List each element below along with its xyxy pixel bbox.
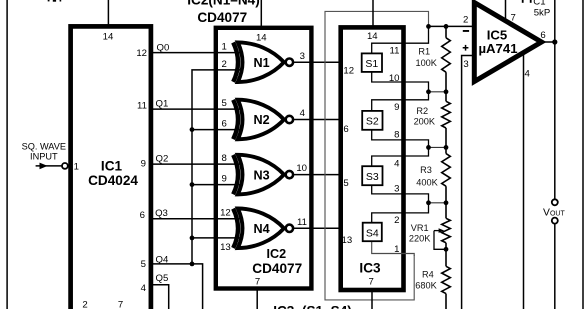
svg-text:14: 14 [367, 31, 378, 42]
svg-text:2: 2 [82, 299, 87, 309]
wire N4 pin 13 [192, 237, 240, 239]
svg-text:IC3: IC3 [359, 261, 381, 276]
junction dot summing/pin2 [426, 24, 431, 29]
svg-text:2: 2 [463, 15, 468, 26]
svg-text:14: 14 [256, 32, 267, 43]
svg-text:IC2: IC2 [266, 247, 286, 261]
svg-text:R2: R2 [416, 106, 428, 116]
svg-text:400K: 400K [416, 177, 438, 187]
svg-text:3: 3 [463, 59, 468, 70]
op-amp IC5 uA741 [474, 3, 541, 82]
svg-text:4: 4 [394, 159, 400, 170]
svg-text:CD4024: CD4024 [88, 173, 138, 188]
junction dot pin13/feedback [190, 236, 195, 241]
svg-text:N1: N1 [254, 56, 270, 70]
svg-text:R1: R1 [418, 47, 430, 57]
svg-text:8: 8 [394, 129, 399, 140]
wire Q2 to N3 pin 8 [151, 163, 240, 165]
gray routing box around IC3 [325, 11, 429, 300]
junction dot R1 top [444, 24, 449, 29]
wire Q0 to N1 pin 1 [151, 52, 240, 54]
wire: feedback from C1 down to output [554, 0, 556, 42]
wire N4 output to S4 [294, 227, 363, 229]
svg-text:12: 12 [220, 208, 231, 219]
svg-text:Q1: Q1 [156, 99, 169, 110]
svg-text:10: 10 [296, 163, 307, 174]
wire: op-amp pin 7 supply [505, 0, 507, 21]
svg-text:R4: R4 [422, 269, 434, 279]
switch S4 [363, 203, 429, 256]
wire N1 output to S1 [294, 61, 362, 63]
svg-text:7: 7 [369, 277, 374, 288]
svg-text:INPUT: INPUT [30, 152, 58, 162]
XNOR gate N1 [233, 42, 293, 82]
link tap R2/R3 [429, 146, 447, 148]
svg-text:5: 5 [343, 178, 348, 189]
svg-text:CD4077: CD4077 [197, 10, 247, 25]
svg-text:C1: C1 [533, 0, 545, 7]
svg-text:7: 7 [255, 277, 260, 288]
svg-text:12: 12 [343, 66, 354, 77]
svg-text:5: 5 [141, 259, 146, 270]
wire: op-amp pin 3 reference [462, 56, 473, 309]
svg-text:1: 1 [222, 42, 227, 53]
wire: IC1 pin 14 supply [107, 0, 109, 26]
wire: IC2 pin 14 supply [260, 0, 262, 27]
IC3 box [341, 27, 404, 290]
svg-text:4: 4 [300, 108, 306, 119]
svg-text:CD4077: CD4077 [252, 261, 302, 276]
wire N3 output to S3 [294, 174, 363, 176]
wire: input with arrowhead [36, 165, 62, 167]
svg-text:1: 1 [394, 244, 399, 255]
XNOR gate N4 [233, 209, 293, 249]
resistor R3 [442, 147, 451, 202]
svg-text:7: 7 [511, 12, 516, 23]
wire Q5 [151, 285, 169, 309]
IC1 box CD4024 [71, 26, 151, 309]
VOUT terminal top [552, 199, 558, 205]
wire Q4 [151, 264, 203, 309]
svg-text:N2: N2 [254, 113, 270, 127]
svg-text:IC3–(S1–S4): IC3–(S1–S4) [273, 304, 352, 309]
switch S1 [362, 26, 429, 91]
switch S3 [362, 147, 428, 202]
svg-text:14: 14 [103, 31, 114, 42]
svg-text:VR1: VR1 [411, 223, 429, 233]
VOUT terminal bottom [552, 218, 558, 224]
svg-text:Q0: Q0 [157, 42, 170, 53]
link tap R1/R2 [429, 91, 447, 93]
svg-text:9: 9 [394, 102, 399, 113]
svg-text:IC1: IC1 [101, 158, 123, 173]
svg-text:11: 11 [297, 217, 307, 228]
svg-text:Q3: Q3 [155, 208, 168, 219]
svg-text:680K: 680K [415, 280, 437, 290]
input terminal circle at IC1 pin 1 [62, 163, 68, 169]
svg-text:R3: R3 [420, 165, 432, 175]
wire: op-amp output [542, 41, 555, 43]
wire N2 output to S2 [294, 119, 363, 121]
svg-text:Q5: Q5 [156, 273, 169, 284]
svg-text:100K: 100K [415, 58, 437, 68]
wire: IC3 pin 14 supply [372, 0, 374, 27]
svg-text:7: 7 [118, 299, 123, 309]
svg-text:5kP: 5kP [534, 8, 551, 19]
wire: left vertical bus (cropped larger frame) [6, 0, 8, 309]
wire N3 pin 9 [192, 184, 240, 186]
wire: op-amp pin 4 supply [523, 52, 525, 309]
plus sign [463, 45, 469, 51]
resistor R4 [442, 249, 451, 309]
resistor R2 [442, 92, 451, 148]
wire N2 pin 6 [192, 129, 240, 131]
junction dot pin9/feedback [190, 182, 195, 187]
junction dot pin6/feedback [190, 127, 195, 132]
svg-text:4: 4 [141, 283, 147, 294]
svg-text:S4: S4 [366, 227, 379, 239]
XNOR gate N3 [233, 155, 293, 195]
svg-text:13: 13 [342, 235, 353, 246]
svg-text:220K: 220K [409, 234, 431, 244]
wire: VOUT bottom down [554, 224, 556, 309]
wire: summing node to op-amp pin 2 [429, 25, 473, 27]
svg-text:200K: 200K [414, 116, 436, 126]
capacitor C1 plates (cropped at top) [522, 0, 532, 3]
svg-text:6: 6 [140, 210, 145, 221]
svg-text:13: 13 [220, 242, 231, 253]
minus sign [463, 30, 469, 32]
svg-text:Q2: Q2 [156, 154, 169, 165]
svg-text:11: 11 [137, 101, 147, 112]
svg-text:8: 8 [222, 153, 227, 164]
svg-text:9: 9 [141, 159, 146, 170]
svg-text:S1: S1 [365, 58, 378, 70]
svg-text:2: 2 [394, 215, 399, 226]
resistor R1 [442, 26, 451, 91]
svg-text:S3: S3 [366, 171, 379, 183]
svg-text:µA741: µA741 [478, 41, 517, 56]
junction dot Q4/feedback [190, 262, 195, 267]
svg-text:N3: N3 [254, 168, 270, 182]
wire: output down to VOUT [554, 42, 556, 199]
XNOR gate N2 [233, 100, 293, 140]
potentiometer VR1 [434, 203, 450, 250]
svg-text:9: 9 [222, 174, 227, 185]
wire: right vertical bus [582, 0, 584, 309]
svg-text:IC2(N1–N4): IC2(N1–N4) [187, 0, 260, 8]
svg-text:S2: S2 [366, 116, 379, 128]
svg-text:1: 1 [74, 161, 79, 172]
wire Q3 to N4 pin 12 [151, 218, 240, 220]
wire Q1 to N2 pin 5 [151, 108, 240, 110]
wire N1 pin 2 feedback [192, 70, 240, 264]
wire: IC3 pin 7 down [371, 292, 373, 309]
partial text: cropped label bottoms top-left (+9V) [48, 0, 61, 2]
link tap R3/VR1 [429, 202, 447, 204]
VR1 wiper arrowhead [439, 228, 445, 233]
wire: IC2 pin 7 down [256, 289, 258, 309]
svg-text:6: 6 [540, 30, 545, 41]
switch S2 [362, 92, 428, 148]
svg-text:6: 6 [343, 124, 348, 135]
svg-text:11: 11 [390, 46, 400, 57]
svg-text:4: 4 [525, 68, 531, 79]
svg-text:2: 2 [222, 59, 227, 70]
svg-text:3: 3 [394, 183, 399, 194]
svg-text:12: 12 [136, 48, 147, 59]
IC2 box CD4077 [216, 28, 312, 289]
svg-text:3: 3 [300, 51, 305, 62]
junction dot output node [552, 39, 557, 44]
svg-text:6: 6 [222, 119, 227, 130]
svg-text:10: 10 [389, 73, 400, 84]
svg-text:N4: N4 [254, 222, 270, 236]
svg-text:SQ. WAVE: SQ. WAVE [22, 141, 66, 151]
svg-text:5: 5 [222, 98, 227, 109]
